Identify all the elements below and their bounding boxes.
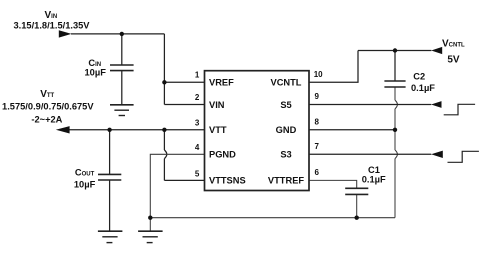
svg-text:3.15/1.8/1.5/1.35V: 3.15/1.8/1.5/1.35V bbox=[14, 20, 91, 30]
node C1 junction at rail bbox=[355, 216, 359, 220]
wire pin8 vertical to rail bbox=[394, 159, 396, 218]
node ground rail junction bbox=[148, 216, 152, 220]
node VREF junction bbox=[162, 80, 166, 84]
svg-text:2: 2 bbox=[195, 93, 200, 102]
wire VIN vertical drop bbox=[163, 34, 165, 105]
svg-text:0.1µF: 0.1µF bbox=[362, 174, 386, 184]
svg-text:VREF: VREF bbox=[209, 78, 234, 88]
node GND junction at pin8 bbox=[393, 128, 397, 132]
ground below COUT bbox=[98, 231, 123, 242]
port VTT arrow bbox=[56, 126, 70, 133]
wire pin5 VTTSNS stub bbox=[164, 179, 205, 181]
wire VTT rail bbox=[69, 129, 205, 131]
wire hop over PGND wire bbox=[164, 150, 166, 159]
svg-text:GND: GND bbox=[276, 125, 297, 135]
S5 waveform glyph bbox=[444, 104, 475, 115]
capacitor CIN plates bbox=[110, 65, 134, 71]
node VCNTL junction at C2 bbox=[393, 48, 397, 52]
op-amp U1 IC body bbox=[205, 71, 310, 191]
wire C1 bottom lead bbox=[356, 195, 358, 218]
svg-text:COUT: COUT bbox=[75, 167, 95, 177]
wire pin9 S5 line bbox=[309, 104, 431, 106]
port VIN arrow bbox=[59, 30, 72, 37]
capacitor COUT plates bbox=[98, 174, 121, 180]
node VTT junction at COUT bbox=[107, 128, 111, 132]
svg-text:VIN: VIN bbox=[209, 100, 225, 110]
wire bottom ground rail bbox=[150, 217, 395, 219]
wire ground stub below rail bbox=[149, 218, 151, 231]
wire C2 bottom lead bbox=[394, 87, 396, 100]
svg-text:5: 5 bbox=[195, 170, 200, 179]
svg-text:VIN: VIN bbox=[45, 10, 58, 21]
svg-text:S5: S5 bbox=[280, 100, 291, 110]
wire pin6 VTTREF lead bbox=[309, 180, 357, 188]
svg-text:VTTSNS: VTTSNS bbox=[209, 176, 246, 186]
svg-text:8: 8 bbox=[315, 118, 320, 127]
svg-text:0.1µF: 0.1µF bbox=[411, 83, 435, 93]
svg-text:6: 6 bbox=[315, 168, 320, 177]
svg-text:5V: 5V bbox=[447, 55, 460, 66]
wire pin4 PGND to ground rail bbox=[150, 154, 205, 217]
wire pin1 VREF stub bbox=[164, 81, 205, 83]
svg-text:VTTREF: VTTREF bbox=[268, 176, 304, 186]
svg-text:VTT: VTT bbox=[209, 125, 227, 135]
node VTT junction at VTTSNS branch bbox=[162, 128, 166, 132]
wire C2 top lead bbox=[394, 51, 396, 82]
wire VIN rail bbox=[71, 33, 164, 35]
svg-text:VCNTL: VCNTL bbox=[271, 78, 302, 88]
wire pin10 VCNTL stub bbox=[309, 51, 358, 83]
svg-text:-2~+2A: -2~+2A bbox=[31, 114, 62, 124]
wire CIN bottom lead bbox=[121, 71, 123, 105]
wire COUT top lead bbox=[109, 130, 111, 174]
wire COUT bottom lead bbox=[109, 180, 111, 231]
ground below PGND rail bbox=[138, 231, 163, 242]
wire hop over S5 wire bbox=[395, 100, 397, 109]
wire pin7 S3 line bbox=[309, 153, 431, 155]
wire pin2 VIN stub bbox=[164, 104, 205, 106]
svg-text:VTT: VTT bbox=[40, 89, 54, 100]
wire VTT to VTTSNS vertical lower bbox=[163, 159, 165, 181]
S3 waveform glyph bbox=[448, 151, 479, 162]
svg-text:VCNTL: VCNTL bbox=[442, 39, 465, 50]
svg-text:PGND: PGND bbox=[209, 150, 236, 160]
svg-text:9: 9 bbox=[315, 92, 320, 101]
ground below CIN bbox=[110, 105, 134, 116]
wire C2 to pin8 vertical bbox=[394, 109, 396, 150]
wire VCNTL rail bbox=[358, 50, 431, 52]
wire VTT to VTTSNS vertical upper bbox=[163, 130, 165, 150]
svg-text:3: 3 bbox=[195, 118, 200, 127]
port VCNTL arrow bbox=[431, 47, 442, 54]
svg-text:1.575/0.9/0.75/0.675V: 1.575/0.9/0.75/0.675V bbox=[2, 101, 94, 111]
capacitor C2 plates bbox=[384, 81, 405, 87]
svg-text:10µF: 10µF bbox=[74, 180, 96, 190]
svg-text:10: 10 bbox=[314, 70, 323, 79]
svg-text:10µF: 10µF bbox=[85, 67, 107, 77]
port S3 arrow bbox=[431, 151, 443, 158]
wire pin8 GND stub bbox=[309, 129, 395, 131]
wire hop over S3 wire bbox=[395, 150, 397, 159]
svg-text:7: 7 bbox=[315, 142, 320, 151]
port S5 arrow bbox=[431, 101, 441, 108]
wire CIN top lead bbox=[121, 34, 123, 65]
svg-text:4: 4 bbox=[195, 143, 200, 152]
svg-text:C2: C2 bbox=[413, 71, 425, 81]
node VIN junction at CIN bbox=[120, 32, 124, 36]
capacitor C1 plates bbox=[345, 188, 368, 194]
svg-text:S3: S3 bbox=[280, 150, 291, 160]
svg-text:1: 1 bbox=[195, 71, 200, 80]
